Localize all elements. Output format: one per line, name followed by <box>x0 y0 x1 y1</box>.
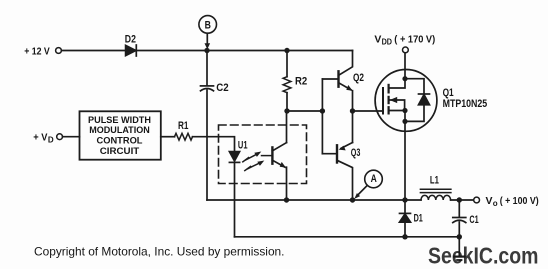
capacitor C1 <box>453 200 466 237</box>
svg-text:MTP10N25: MTP10N25 <box>443 98 488 110</box>
svg-text:D1: D1 <box>414 212 423 224</box>
transistor Q2 <box>322 51 352 91</box>
svg-text:MODULATION: MODULATION <box>89 125 150 135</box>
svg-text:U1: U1 <box>238 140 248 152</box>
label +VD <box>33 131 54 144</box>
svg-text:Q2: Q2 <box>353 72 364 84</box>
ground <box>454 237 464 260</box>
junction drain <box>402 76 407 81</box>
drain contact <box>389 79 405 88</box>
diode D2 <box>126 45 137 56</box>
wire L1 to Vo <box>451 199 474 201</box>
svg-text:D: D <box>48 135 54 144</box>
wire PWM box to R1 <box>161 136 175 138</box>
wire gate rail to Q1 <box>353 110 384 112</box>
label VDD (+170 V) <box>374 33 435 46</box>
svg-text:R1: R1 <box>178 120 189 132</box>
svg-text:o: o <box>493 199 498 208</box>
svg-text:C1: C1 <box>469 214 478 226</box>
body diode <box>405 79 424 94</box>
junction U1 emitter on rail <box>284 197 289 202</box>
source contact <box>389 110 405 112</box>
resistor R2 <box>283 51 291 112</box>
wire C2 bottom down to lower rail <box>206 90 208 200</box>
svg-text:DD: DD <box>382 37 393 46</box>
wire top rail right segment <box>136 50 352 52</box>
junction C1 bottom <box>457 234 462 239</box>
junction Q1 source / D1 on rail <box>402 197 407 202</box>
terminal +12V <box>56 48 62 54</box>
wire U1 collector up to R2 node <box>286 111 288 143</box>
diode D1 <box>400 200 411 237</box>
wire base vertical Q2/Q3 <box>321 79 323 154</box>
body contact with arrow <box>390 100 405 111</box>
terminal Vo <box>474 197 480 203</box>
capacitor C2 <box>201 51 214 91</box>
svg-text:( + 100 V): ( + 100 V) <box>500 195 539 207</box>
junction Q3 collector on rail <box>350 197 355 202</box>
inductor L1 <box>420 189 451 200</box>
svg-text:CIRCUIT: CIRCUIT <box>100 146 140 156</box>
svg-text:+ 12 V: + 12 V <box>24 46 50 58</box>
wire R1 to U1 LED <box>193 137 235 152</box>
svg-text:R2: R2 <box>295 75 307 87</box>
wire top rail left segment <box>62 50 126 52</box>
LED of U1 <box>229 152 239 163</box>
node B <box>199 16 217 50</box>
junction node B <box>204 48 209 53</box>
wire Q1 source down to rail <box>404 121 406 200</box>
optocoupler U1 dashed box <box>219 125 307 184</box>
svg-text:Q3: Q3 <box>351 147 361 159</box>
junction source <box>402 108 407 113</box>
terminal +VD <box>57 134 63 140</box>
svg-text:( + 170 V): ( + 170 V) <box>394 33 435 45</box>
svg-text:SeekIC.com: SeekIC.com <box>428 242 539 268</box>
svg-text:+ V: + V <box>33 131 47 143</box>
junction R2 bottom / U1 collector <box>284 108 289 113</box>
junction C1 top <box>457 197 462 202</box>
resistor R1 <box>175 133 193 140</box>
svg-text:V: V <box>486 195 493 207</box>
gate bar <box>382 88 384 114</box>
label Vo (+100 V) <box>486 195 539 208</box>
junction D1 bottom <box>402 234 407 239</box>
svg-text:B: B <box>205 19 211 31</box>
wire LED cathode down to bottom rail <box>234 162 236 236</box>
bottom rail <box>235 236 460 238</box>
wire emitters vertical <box>352 91 354 143</box>
phototransistor of U1 <box>262 143 287 168</box>
main lower rail <box>207 199 421 201</box>
svg-text:D2: D2 <box>125 34 136 46</box>
junction source-diode <box>402 119 407 124</box>
svg-text:C2: C2 <box>216 82 228 94</box>
light arrow 1 <box>243 152 261 162</box>
svg-text:Copyright of Motorola, Inc. Us: Copyright of Motorola, Inc. Used by perm… <box>34 245 284 259</box>
wire U1 emitter down to lower rail <box>286 167 288 200</box>
junction emitters / gate <box>350 108 355 113</box>
node A <box>354 170 382 199</box>
transistor Q3 <box>322 143 352 201</box>
MOSFET Q1 <box>375 70 437 132</box>
channel bar segments <box>388 85 390 93</box>
svg-text:L1: L1 <box>430 174 439 186</box>
junction R2 top <box>284 48 289 53</box>
terminal VDD <box>403 47 409 53</box>
wire VDD to Q1 drain <box>404 53 406 79</box>
svg-text:CONTROL: CONTROL <box>97 135 143 145</box>
light arrow 2 <box>245 161 264 171</box>
PWM control circuit box <box>80 111 161 159</box>
svg-text:A: A <box>371 173 377 185</box>
wire +VD to PWM box <box>63 136 80 138</box>
svg-text:V: V <box>374 33 381 45</box>
svg-text:PULSE WIDTH: PULSE WIDTH <box>88 115 151 125</box>
wire R2 node to bases node <box>287 110 322 112</box>
junction bases <box>320 108 325 113</box>
